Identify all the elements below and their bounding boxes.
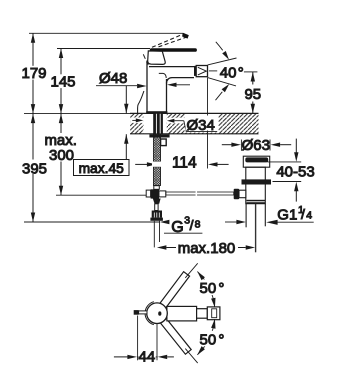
- horizontal pop-up rod: [166, 192, 234, 195]
- svg-text:145: 145: [50, 74, 75, 91]
- flange: [243, 156, 269, 167]
- extension line from raised lever tip (179 top): [29, 32, 183, 34]
- base gasket: [146, 111, 167, 114]
- svg-text:40°: 40°: [220, 65, 244, 82]
- 40 degree swivel cone: [208, 42, 244, 100]
- bottom view: outer escutcheon arc: [145, 302, 154, 325]
- rod connector: [239, 190, 246, 198]
- extension line deck top left: [24, 113, 130, 115]
- tee fitting and pop-up rod: [146, 186, 234, 199]
- svg-text:40-53: 40-53: [276, 164, 314, 181]
- svg-text:95: 95: [244, 86, 261, 103]
- dimension 179: [21, 33, 46, 113]
- body column: [146, 61, 148, 114]
- body: [246, 167, 265, 204]
- label D34 with leader arrows: [132, 116, 218, 135]
- raised lever dashed: [152, 34, 184, 48]
- spout underside: [167, 78, 195, 84]
- svg-text:/: /: [301, 206, 305, 222]
- bottom view: faucet body circle: [147, 303, 168, 324]
- svg-text:44: 44: [139, 349, 156, 366]
- svg-text:395: 395: [22, 161, 47, 178]
- bottom view: pull rod to left: [139, 311, 147, 314]
- label G1 1/4: [266, 204, 314, 225]
- spout barrel top: [149, 66, 194, 68]
- svg-text:50°: 50°: [200, 280, 225, 297]
- tailpipe: [245, 204, 247, 228]
- countertop deck hatched section: [130, 113, 259, 133]
- dimension 95: [244, 72, 262, 113]
- seal ring: [242, 179, 272, 184]
- dimension 145: [50, 49, 75, 114]
- bottom view: spout tube: [167, 306, 197, 321]
- bottom rings: [247, 200, 266, 202]
- faucet body side view: [138, 33, 208, 114]
- lever boss: [148, 51, 166, 65]
- dimension 114: [135, 78, 228, 172]
- bottom view: lower arm (handle swung down 50): [161, 319, 192, 355]
- svg-text:Ø34: Ø34: [187, 117, 215, 134]
- dimension 44: [114, 316, 174, 366]
- lower 50 degree arc: [185, 319, 225, 363]
- upper 50 degree arc: [185, 263, 225, 307]
- label D63: [222, 137, 291, 154]
- threaded shank through deck: [149, 114, 169, 186]
- svg-text:/: /: [190, 217, 194, 233]
- bottom view: upper arm (handle swung up 50): [160, 272, 190, 308]
- svg-text:Ø48: Ø48: [99, 70, 127, 87]
- extension line from lever blade (145 top): [57, 48, 150, 50]
- svg-text:Ø63: Ø63: [242, 137, 270, 154]
- dimension 40-53: [268, 139, 315, 202]
- pull rod: [255, 204, 257, 253]
- dimension max.180: [157, 240, 255, 257]
- svg-text:8: 8: [195, 219, 201, 231]
- svg-text:179: 179: [21, 65, 46, 82]
- G3/8 connection stack: [150, 199, 163, 248]
- svg-text:max.180: max.180: [178, 240, 236, 257]
- aerator housing: [194, 66, 196, 76]
- pop-up waste assembly: [234, 156, 271, 252]
- rod clamp: [161, 139, 167, 146]
- label G3/8: [164, 214, 202, 236]
- svg-text:G1: G1: [277, 206, 297, 223]
- label D48 with leader arrows: [96, 70, 190, 88]
- long reference line at G3/8 level with G1 1/4 left arrow: [24, 220, 246, 224]
- svg-text:max.45: max.45: [79, 161, 125, 176]
- dimension max.300: [42, 114, 146, 196]
- mounting washer under deck: [149, 134, 169, 137]
- dimension 395: [22, 114, 47, 222]
- svg-text:50°: 50°: [200, 332, 225, 349]
- svg-text:4: 4: [306, 210, 312, 222]
- svg-text:114: 114: [172, 155, 197, 172]
- dimension max.45 box and arrows: [74, 86, 130, 176]
- svg-text:300: 300: [49, 147, 74, 164]
- lever blade: [150, 48, 197, 52]
